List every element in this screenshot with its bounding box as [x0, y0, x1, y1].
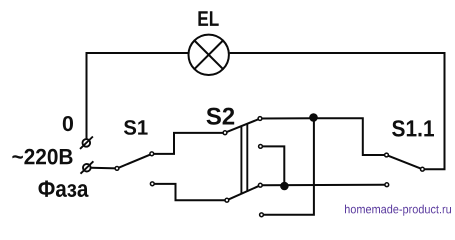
wire node A to S2 contact 1	[260, 117, 314, 119]
S2 contact 3	[258, 183, 262, 187]
wire neutral: terminal 0 up and right to lamp	[87, 53, 189, 139]
wire S1 lower contact to S2 bottom pole	[152, 184, 227, 200]
switch S1 common contact	[115, 167, 119, 171]
label EL	[198, 11, 218, 26]
switch S1.1 blade	[387, 155, 423, 169]
wire S1 upper contact to S2 top pole	[152, 133, 225, 154]
label S1.1	[392, 120, 434, 136]
switch S2 bottom blade	[227, 185, 260, 200]
label S2	[207, 108, 235, 125]
S2 linkage bar line 2	[246, 123, 248, 191]
S2 top pole contact	[223, 131, 227, 135]
label ~220V	[12, 149, 72, 165]
label S1	[124, 120, 148, 135]
wire node A down and left to S2 contact 4	[262, 118, 314, 215]
node A junction dot	[309, 113, 318, 122]
wire S2 contact 3 through node B to S1.1 lower contact	[260, 184, 387, 187]
switch S1 upper contact	[150, 152, 154, 156]
S2 contact 4	[260, 213, 264, 217]
S2 contact 2	[259, 145, 263, 149]
watermark homemade-product.ru	[345, 205, 451, 216]
label phase	[39, 181, 89, 198]
terminal phase	[81, 161, 94, 173]
S2 bottom pole contact	[225, 198, 229, 202]
wire phase terminal to S1 common	[91, 167, 117, 170]
node B junction dot	[280, 182, 289, 191]
switch S2 top blade	[225, 119, 260, 133]
wire S2 contact 2 to node B	[261, 146, 285, 185]
switch S1 blade	[117, 154, 152, 169]
terminal 0 (neutral)	[80, 137, 93, 149]
wire S1.1 upper contact to junction node A	[314, 118, 387, 155]
wire lamp right to top-right corner down to S1.1 common	[230, 53, 445, 169]
lamp EL	[189, 35, 229, 75]
switch S1.1 common contact	[421, 167, 425, 171]
S2 contact 1	[258, 117, 262, 121]
S2 linkage bar line 1	[240, 126, 242, 195]
switch S1.1 lower contact	[385, 183, 389, 187]
switch S1 lower contact	[150, 182, 154, 186]
switch S1.1 upper contact	[385, 153, 389, 157]
label 0	[63, 116, 73, 131]
